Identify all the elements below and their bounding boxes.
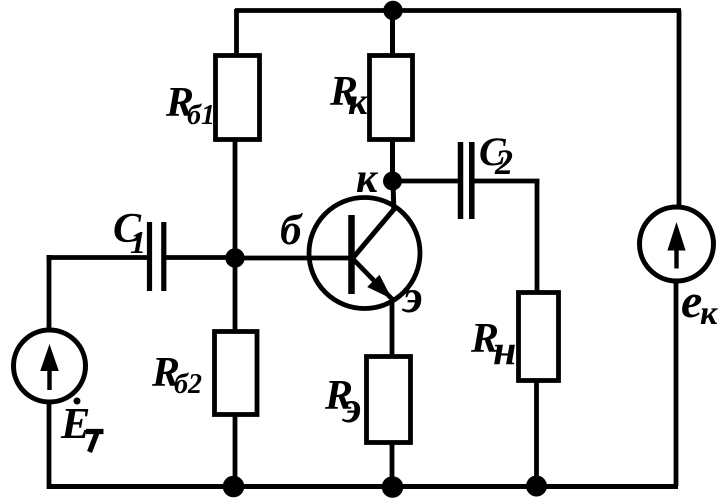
wire top to Rb1 — [234, 9, 239, 57]
source ek circle — [640, 207, 714, 281]
wire Re bottom to ground rail — [390, 442, 395, 488]
wire collector node to transistor — [391, 181, 397, 210]
wire right vertical lower — [674, 279, 679, 486]
resistor Rb2 — [215, 332, 258, 415]
node base junction — [225, 248, 244, 267]
svg-text:э: э — [341, 383, 361, 432]
svg-text:1: 1 — [130, 224, 146, 260]
svg-text:б: б — [280, 207, 303, 254]
resistor Rk — [370, 56, 413, 140]
wire bottom horizontal — [49, 484, 678, 489]
resistor Re — [367, 357, 411, 443]
node top junction — [383, 1, 402, 20]
wire Rn bottom to ground rail — [534, 380, 539, 487]
svg-text:2: 2 — [494, 142, 513, 182]
node ground Rb2 — [223, 476, 245, 498]
wire Rk bottom to collector node — [390, 139, 395, 182]
resistor Rb1 — [216, 56, 260, 140]
wire top junction to Rk — [390, 9, 395, 57]
wire corner down to Rn — [535, 179, 540, 293]
wire base node to Rb2 — [233, 256, 238, 332]
transistor emitter line with arrow — [352, 258, 392, 299]
source ek arrow — [674, 240, 678, 269]
svg-text:э: э — [401, 271, 423, 323]
svg-text:к: к — [348, 81, 369, 123]
transistor VT circle — [309, 198, 420, 309]
wire right vertical upper — [677, 11, 682, 210]
wire C1 right to base node — [163, 255, 238, 260]
wire C1 left — [47, 255, 149, 260]
node collector junction — [383, 172, 402, 191]
capacitor C2 — [458, 142, 464, 219]
source Eg circle — [14, 330, 86, 402]
svg-text:к: к — [356, 156, 379, 202]
resistor Rn — [519, 293, 559, 381]
capacitor C1 — [147, 222, 152, 291]
svg-text:E: E — [60, 399, 90, 448]
transistor collector line — [352, 208, 395, 259]
svg-text:б1: б1 — [187, 100, 215, 131]
node ground Re — [382, 476, 404, 498]
node ground Rn — [526, 476, 547, 497]
transistor base bar — [348, 215, 355, 294]
wire top horizontal — [235, 8, 681, 13]
svg-text:н: н — [493, 328, 516, 374]
wire C2 right plate to corner — [472, 179, 540, 184]
svg-text:к: к — [700, 295, 718, 332]
wire base node to transistor — [233, 256, 352, 261]
wire collector node to C2 — [393, 179, 460, 184]
source Eg arrow — [47, 360, 51, 390]
wire Rb2 bottom to ground rail — [233, 414, 238, 488]
wire left vertical upper — [47, 255, 52, 331]
svg-text:б2: б2 — [174, 369, 202, 400]
wire left vertical lower — [47, 401, 52, 489]
wire emitter to Re — [390, 297, 395, 357]
wire Rb1 bottom to base node — [233, 138, 238, 260]
